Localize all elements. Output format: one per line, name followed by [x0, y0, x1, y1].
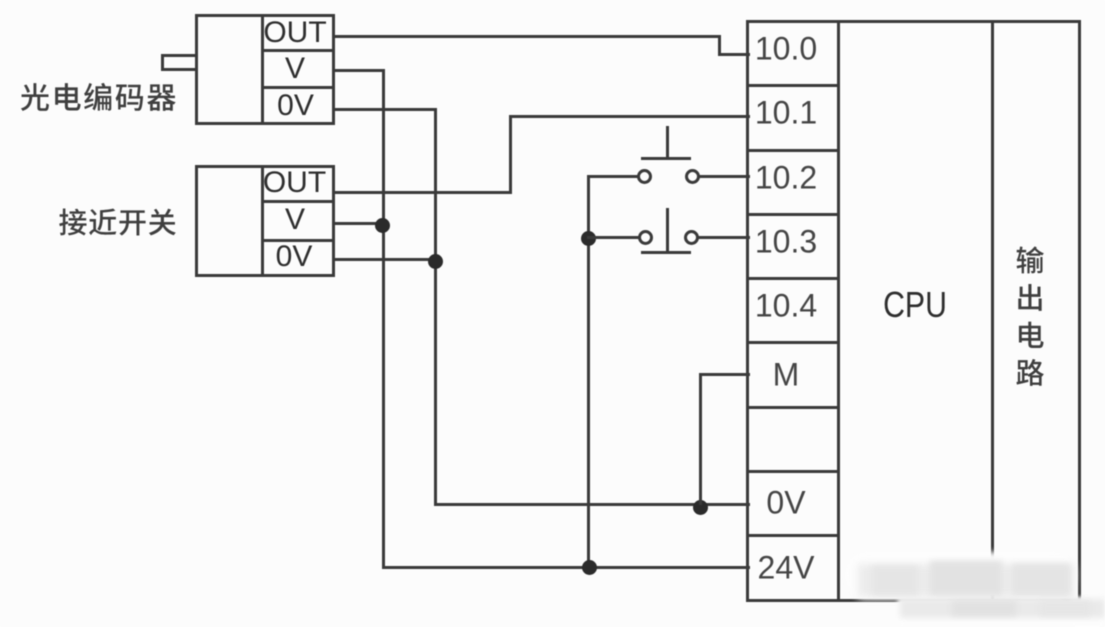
start pushbutton SB1 left contact [637, 169, 652, 184]
proximity pin OUT label [263, 166, 326, 200]
label 光电编码器 [5, 67, 191, 127]
wire encoder 0V to 0V bus [333, 108, 437, 111]
start pushbutton SB1 bar [641, 157, 691, 160]
terminal 24V label [758, 549, 815, 586]
wire proximity OUT to input 10.1 [333, 191, 512, 194]
wire SB2 to input 10.3 [697, 236, 750, 239]
wire encoder V to 24V bus [333, 69, 385, 72]
wire 0V bus to terminal 0V [434, 503, 751, 506]
CPU block outline [746, 20, 994, 602]
proximity switch terminal strip [261, 165, 335, 277]
wire proximity V to junction [333, 222, 385, 225]
label 输出电路 [1001, 231, 1059, 401]
encoder pin V label [285, 52, 305, 86]
terminal M label [773, 356, 800, 393]
terminal 10.0 label [755, 31, 817, 68]
terminal cell separators [746, 84, 841, 87]
wire bus to SB2 [587, 236, 640, 239]
wire terminal M to 0V wire [699, 373, 751, 376]
CPU label [883, 284, 947, 326]
encoder pin 0V label [277, 89, 314, 123]
wire 24V bus to terminal 24V [382, 566, 750, 569]
encoder pin OUT label [263, 16, 326, 50]
photoelectric encoder terminal strip [261, 14, 335, 125]
terminal 10.2 label [755, 159, 817, 196]
junction dot V bus [375, 218, 390, 233]
wire 24V bus vertical [382, 69, 385, 568]
wire 0V bus vertical [434, 108, 437, 505]
stop pushbutton SB2 (NC) stem [666, 208, 669, 254]
photoelectric encoder shaft [161, 54, 198, 71]
junction dot M wire at 0V wire [693, 500, 708, 515]
junction dot pushbutton bus at 24V wire [582, 560, 597, 575]
stop pushbutton SB2 right contact [684, 230, 699, 245]
photoelectric encoder body [195, 14, 264, 125]
terminal 0V label [766, 485, 805, 522]
terminal 10.4 label [755, 288, 817, 325]
terminal 10.3 label [755, 223, 817, 260]
stop pushbutton SB2 bar [641, 251, 691, 254]
label 接近开关 [44, 193, 191, 251]
wire encoder OUT to input 10.0 [333, 35, 721, 38]
junction dot pushbutton bus at stop button [581, 231, 596, 246]
wire SB1 to input 10.2 [698, 175, 750, 178]
terminal 10.1 label [755, 95, 817, 132]
input terminal column [746, 20, 841, 602]
stop pushbutton SB2 left contact [638, 230, 653, 245]
junction dot 0V bus [428, 254, 443, 269]
output circuit block outline [991, 20, 1082, 602]
proximity pin 0V label [276, 240, 313, 274]
wire pushbutton bus vertical [587, 175, 590, 568]
start pushbutton SB1 (NO) stem [666, 126, 669, 160]
proximity pin V label [285, 203, 305, 237]
proximity switch body [195, 165, 264, 277]
start pushbutton SB1 right contact [685, 169, 700, 184]
wire bus to SB1 [587, 175, 639, 178]
wire proximity 0V to junction [333, 258, 437, 261]
